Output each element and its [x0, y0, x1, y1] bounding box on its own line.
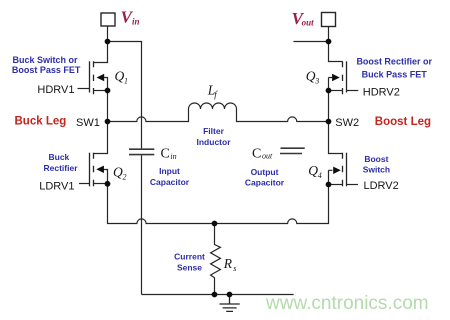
svg-text:Current: Current — [174, 251, 205, 261]
svg-text:Filter: Filter — [203, 126, 224, 136]
svg-text:Rectifier: Rectifier — [43, 163, 78, 173]
node dot Q2 source — [105, 181, 111, 187]
ground symbol — [220, 295, 240, 312]
transistor Q3 body lead — [329, 78, 333, 91]
node dot SW1 — [105, 119, 111, 125]
svg-text:C: C — [161, 147, 170, 162]
svg-text:Buck Switch or: Buck Switch or — [12, 55, 78, 65]
node dot Rs top — [212, 221, 218, 227]
node dot SW2 — [326, 119, 332, 125]
svg-text:C: C — [252, 147, 261, 162]
svg-text:Capacitor: Capacitor — [245, 178, 285, 188]
node dot below Vin — [105, 39, 111, 45]
svg-text:4: 4 — [318, 171, 322, 180]
transistor Q2 channel segments — [93, 153, 95, 187]
svg-text:1: 1 — [124, 77, 128, 86]
node dot Rs bottom — [212, 292, 218, 298]
svg-text:2: 2 — [123, 172, 127, 181]
svg-text:Capacitor: Capacitor — [150, 177, 190, 187]
terminal Vout (output port box) — [322, 13, 336, 27]
transistor Q2 arrow — [96, 166, 104, 173]
transistor Q1 source lead — [94, 90, 108, 92]
svg-text:www.cntronics.com: www.cntronics.com — [265, 293, 429, 314]
transistor Q1 channel segments — [93, 61, 95, 94]
transistor Q2 gate lead from LDRV1 — [79, 183, 90, 185]
transistor Q2 source lead — [94, 183, 108, 185]
wire SW1 to SW2 with hops and filter inductor Lf — [108, 103, 329, 121]
svg-text:Buck: Buck — [49, 152, 70, 162]
svg-text:Boost Pass FET: Boost Pass FET — [12, 65, 81, 75]
transistor Q4 body lead — [329, 170, 333, 184]
svg-text:Boost: Boost — [364, 154, 388, 164]
svg-text:in: in — [170, 152, 176, 161]
capacitor Cin plates — [129, 149, 154, 154]
svg-text:out: out — [302, 18, 315, 28]
node dot Q3 source — [326, 88, 332, 94]
svg-text:Sense: Sense — [177, 262, 202, 272]
svg-text:SW2: SW2 — [335, 117, 359, 129]
wire node B down to Q3 drain — [329, 42, 343, 62]
svg-text:Q: Q — [308, 163, 318, 178]
wire Q2 source down and bottom mid rail to Q4 source (hops over Cin and Cout leads) — [108, 184, 329, 224]
wire node A to Cin top lead — [108, 42, 142, 149]
svg-text:SW1: SW1 — [76, 117, 100, 129]
svg-text:3: 3 — [314, 77, 319, 86]
capacitor Cout plates — [280, 148, 305, 153]
terminal Vin (input port box) — [101, 13, 115, 26]
transistor Q1 gate plate — [89, 61, 91, 92]
svg-text:R: R — [223, 256, 233, 271]
svg-text:Switch: Switch — [363, 165, 390, 175]
wire Q1 source to SW1 — [107, 91, 109, 122]
svg-text:Input: Input — [159, 166, 180, 176]
transistor Q3 gate plate — [346, 61, 348, 92]
svg-text:LDRV2: LDRV2 — [364, 180, 399, 192]
svg-text:Boost Rectifier or: Boost Rectifier or — [356, 57, 432, 67]
wire SW2 down to Q4 drain — [329, 122, 343, 154]
transistor Q4 gate lead to LDRV2 — [347, 184, 359, 186]
transistor Q1 body lead — [104, 78, 108, 91]
node dot ground tap — [227, 292, 233, 298]
wire SW1 down to Q2 drain — [93, 122, 107, 154]
transistor Q4 source lead — [329, 184, 343, 186]
wire Vout box down to node B — [328, 27, 330, 42]
transistor Q2 body lead — [104, 170, 108, 184]
resistor Rs (current sense) — [211, 224, 221, 295]
svg-text:Q: Q — [306, 69, 316, 84]
wire Vin box to node A — [107, 26, 109, 42]
wire node B to left (toward Cout) — [294, 41, 329, 43]
transistor Q1 arrow — [97, 74, 105, 81]
svg-text:out: out — [262, 152, 273, 161]
svg-text:Output: Output — [251, 167, 279, 177]
svg-text:Boost Leg: Boost Leg — [375, 116, 431, 128]
transistor Q3 gate lead to HDRV2 — [347, 90, 359, 92]
svg-text:s: s — [233, 264, 236, 273]
transistor Q3 channel segments — [342, 61, 344, 94]
svg-text:HDRV1: HDRV1 — [37, 84, 74, 96]
wire node A down to Q1 drain — [94, 42, 108, 63]
node dot below Vout — [326, 39, 332, 45]
node dot Q1 source — [105, 88, 111, 94]
svg-text:Buck Pass FET: Buck Pass FET — [362, 69, 428, 79]
transistor Q3 source lead — [329, 90, 343, 92]
svg-text:Inductor: Inductor — [197, 137, 232, 147]
transistor Q4 channel segments — [342, 153, 344, 187]
wire Q3 source to SW2 — [328, 91, 330, 122]
svg-text:LDRV1: LDRV1 — [39, 180, 74, 192]
svg-text:Buck Leg: Buck Leg — [15, 116, 67, 128]
svg-text:Q: Q — [115, 69, 125, 84]
transistor Q4 arrow — [333, 167, 341, 174]
svg-text:f: f — [214, 90, 218, 100]
svg-text:HDRV2: HDRV2 — [363, 86, 400, 98]
wire ground rail — [142, 294, 294, 296]
svg-text:in: in — [132, 17, 140, 27]
transistor Q1 gate lead from HDRV1 — [78, 88, 90, 90]
node dot Q4 source — [326, 182, 332, 188]
svg-text:Q: Q — [113, 164, 123, 179]
wire Cin bottom lead down to ground rail — [141, 155, 143, 294]
transistor Q4 gate plate — [346, 153, 348, 187]
transistor Q2 gate plate — [89, 153, 91, 187]
transistor Q3 arrow — [332, 74, 340, 81]
